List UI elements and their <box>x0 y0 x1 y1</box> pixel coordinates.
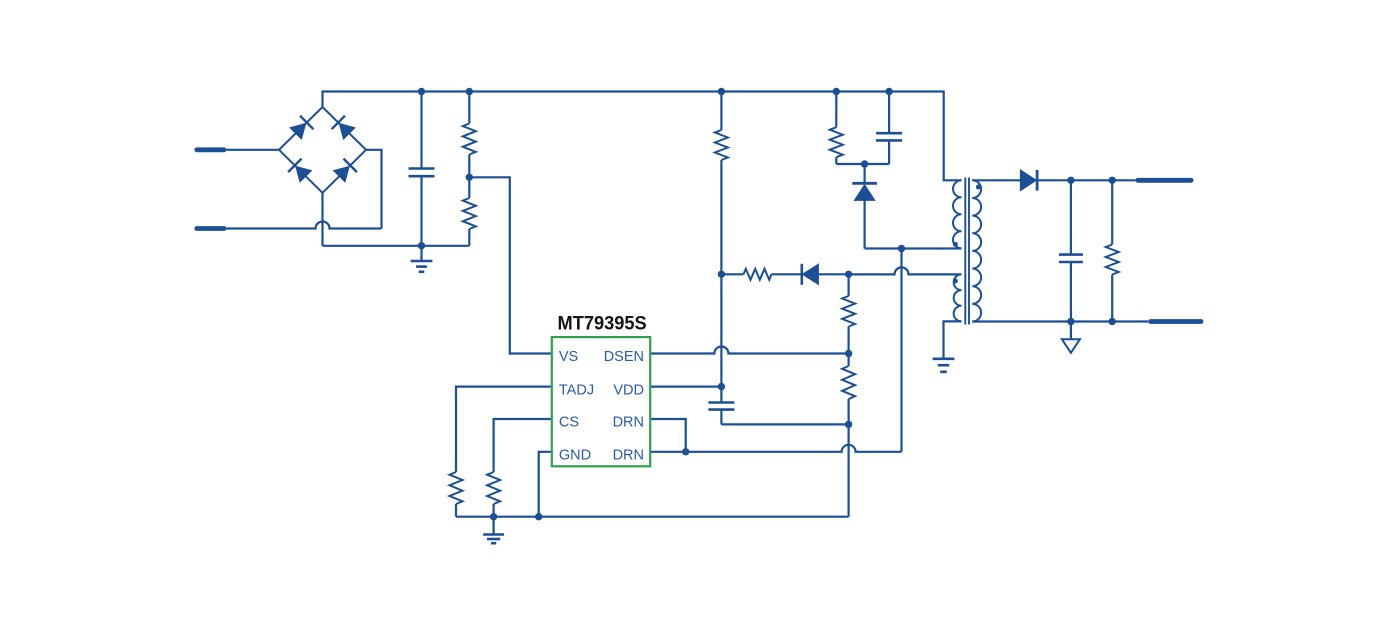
wire DC- bottom rail <box>323 245 470 247</box>
junction node 2 <box>466 88 473 95</box>
resistor R4 <box>721 273 743 275</box>
wire VDD <box>650 386 721 388</box>
output terminal J4 <box>1151 319 1201 324</box>
junction node 9 <box>898 245 905 252</box>
resistor R3 <box>720 92 722 131</box>
resistor R8 <box>450 472 463 504</box>
resistor R5 <box>835 92 837 128</box>
transformer T1 core <box>964 178 966 325</box>
op-amp/controller U1 MT79395S body <box>552 337 650 466</box>
junction node 17 <box>535 513 542 520</box>
wire R3 to VDD node <box>720 160 722 403</box>
wire DC+ top rail <box>323 92 962 181</box>
wire feedback leg to ground rail <box>847 424 849 516</box>
junction node 20 <box>1067 318 1074 325</box>
diode D7 <box>1020 170 1036 191</box>
capacitor C3 <box>1070 180 1072 254</box>
junction node 1 <box>418 88 425 95</box>
wire bridge right node riser <box>366 150 382 229</box>
wire drain riser <box>900 249 902 452</box>
junction node 21 <box>1109 318 1116 325</box>
wire DRN bus (hops over feedback leg) <box>650 445 901 452</box>
svg-text:CS: CS <box>559 415 579 431</box>
capacitor C4 <box>708 401 734 404</box>
junction node 13 <box>718 383 725 390</box>
ground <box>420 246 422 261</box>
resistor R6 <box>847 274 849 296</box>
junction node 5 <box>885 88 892 95</box>
junction node 3 <box>718 88 725 95</box>
resistor R1 <box>468 92 470 124</box>
junction node 7 <box>466 174 473 181</box>
wire CS <box>494 419 552 472</box>
junction node 8 <box>861 160 868 167</box>
svg-text:VDD: VDD <box>613 382 644 398</box>
transformer T1 aux winding <box>954 274 962 321</box>
ground <box>493 517 495 535</box>
wire secondary bottom lead <box>972 320 1148 322</box>
junction node 12 <box>845 350 852 357</box>
junction node 14 <box>845 421 852 428</box>
resistor R2 <box>468 177 470 198</box>
wire clamp to primary bottom <box>865 247 962 249</box>
transformer T1 primary winding <box>953 180 962 248</box>
wire secondary top lead <box>972 179 1020 181</box>
junction node 4 <box>833 88 840 95</box>
junction node 19 <box>1109 177 1116 184</box>
wire DSEN (hops over VDD leg) <box>650 347 848 354</box>
wire DRN pin 1 jog <box>650 419 686 452</box>
junction node 16 <box>490 513 497 520</box>
svg-text:DRN: DRN <box>613 415 644 431</box>
diode D6 (clamp) <box>863 164 865 183</box>
junction node 11 <box>845 271 852 278</box>
wire aux return <box>944 321 962 358</box>
svg-text:TADJ: TADJ <box>559 382 594 398</box>
resistor R7 <box>847 354 849 367</box>
capacitor C1 <box>420 92 422 169</box>
junction node 6 <box>418 242 425 249</box>
svg-text:GND: GND <box>559 448 591 464</box>
svg-text:VS: VS <box>559 349 578 365</box>
wire GND pin <box>539 452 552 517</box>
ground (output) <box>1070 322 1072 340</box>
AC input terminal J2 <box>197 226 224 231</box>
svg-text:MT79395S: MT79395S <box>558 313 647 335</box>
bridge rectifier BR1 <box>279 107 366 193</box>
wire divider tap to VS pin <box>469 177 552 353</box>
wire J2 to bridge right node (hops over DC- wire) <box>227 222 382 229</box>
wire TADJ <box>456 387 552 472</box>
ground <box>933 357 955 360</box>
junction node 10 <box>718 271 725 278</box>
wire J1 to bridge left node <box>227 149 280 151</box>
svg-text:DRN: DRN <box>613 448 644 464</box>
transformer T1 secondary winding <box>972 180 981 321</box>
wire aux winding feed (hops over drain riser) <box>849 267 962 274</box>
output terminal J3 <box>1138 178 1191 183</box>
wire bridge DC- drop <box>321 193 323 246</box>
diode D5 <box>772 273 803 275</box>
AC input terminal J1 <box>197 147 224 152</box>
wire C4 bottom to feedback leg <box>721 423 848 425</box>
junction node 18 <box>1067 177 1074 184</box>
junction node 15 <box>682 448 689 455</box>
resistor R9 <box>487 472 500 504</box>
wire ground rail <box>456 516 849 518</box>
svg-text:DSEN: DSEN <box>604 349 644 365</box>
capacitor C2 <box>888 92 890 134</box>
resistor R10 <box>1111 180 1113 244</box>
wire snubber bottom link <box>836 163 889 165</box>
